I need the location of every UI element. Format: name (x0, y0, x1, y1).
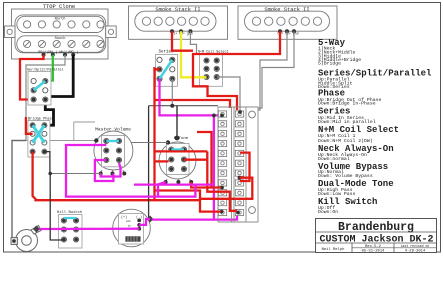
neck pickup TTOP Clone box (12, 9, 109, 59)
north coil (17, 16, 105, 32)
wire red vertical extension (153, 191, 155, 201)
wire red 5way loop (200, 178, 252, 199)
wire gray bridge c2 (248, 31, 287, 110)
svg-text:WH(+)BK(-): WH(+)BK(-) (59, 50, 78, 54)
wire magenta mid horizontal (134, 183, 214, 185)
wire ground bus down to jack (12, 141, 26, 242)
title block (316, 219, 437, 254)
switch Ser/Split/Parallel (27, 68, 64, 106)
wire black to kill bottom (50, 174, 64, 241)
5way lug column B (235, 111, 243, 216)
bridge pickup body (245, 11, 330, 31)
wire magenta volume U (66, 145, 195, 197)
wire black bus down to tone cap diamond (149, 106, 150, 219)
wire gray cavity corner (74, 122, 95, 141)
lever X (33, 125, 45, 142)
wire magenta tone lug loop (139, 219, 150, 225)
wire gray bridge gnd (250, 31, 294, 108)
wire black bridge phase to kill switch (44, 152, 50, 174)
wire magenta diamond to 5way vertical (152, 218, 214, 220)
wire magenta 5way vertical (214, 115, 237, 219)
pot M.Tone (159, 137, 196, 184)
jumper (171, 148, 184, 150)
wire gray series bottom to bus junction (171, 79, 173, 106)
svg-text:4-29-2014: 4-29-2014 (405, 249, 426, 253)
wire magenta under volume inner (101, 163, 121, 177)
svg-text:Rev.5.2: Rev.5.2 (365, 245, 382, 249)
svg-text:North: North (55, 16, 66, 21)
dual-mode tone pot (113, 209, 151, 247)
wire bridge-phase lug to bus (43, 134, 45, 141)
wire red bridge-phase to long bottom run (33, 152, 200, 201)
wire magenta series to 5way (160, 79, 223, 116)
neck pickup terminals (42, 53, 76, 57)
svg-text:in: in (128, 223, 132, 227)
wire red cross link (155, 150, 208, 152)
5way active lug dots (212, 110, 242, 214)
wire red bus to 5way top (155, 100, 231, 108)
legend text block (318, 38, 432, 215)
mounting tab left (5, 26, 16, 38)
bridge pickup box (238, 6, 337, 39)
output jack (11, 226, 41, 252)
wire magenta jack to kill to tone (39, 228, 139, 231)
wire black jog to bridge phase (44, 99, 53, 125)
switch N+M Coil Select (198, 49, 229, 86)
wire red to tone lug (155, 160, 169, 162)
svg-text:5)Bridge: 5)Bridge (318, 61, 341, 67)
wire red 5way right stub loop (240, 153, 250, 181)
svg-text:Down:Mid in parallel: Down:Mid in parallel (318, 119, 376, 125)
jumper (64, 217, 76, 219)
pot case dot (94, 138, 98, 142)
wire red around tone pot vertical (155, 67, 222, 211)
wire green (neck) (45, 55, 53, 81)
svg-text:RD(+)GN(-): RD(+)GN(-) (38, 50, 57, 54)
wire red (neck) (20, 55, 44, 100)
pot bottom lugs (166, 179, 192, 183)
wire ground bus to volume pot case (26, 140, 96, 142)
svg-text:M.Tone: M.Tone (174, 137, 189, 141)
wire red parallel vertical (197, 132, 221, 188)
svg-text:out: out (126, 220, 131, 223)
south coil (17, 36, 105, 53)
jumper (106, 140, 119, 142)
wire white (neck) to ground bus and jack (26, 55, 65, 141)
5-way megaswitch (218, 107, 258, 222)
wire yellow middle pickup to N+M (181, 31, 207, 77)
lugs (137, 219, 141, 231)
middle pickup body (135, 11, 216, 31)
wire gray middle pickup c2 (190, 31, 196, 55)
wire red pot lug to 5way (191, 182, 211, 188)
middle pickup box (129, 6, 228, 39)
capacitor striped (126, 237, 141, 242)
svg-text:Neil Relph: Neil Relph (322, 247, 345, 252)
junction (170, 104, 174, 108)
switch Bridge Phase (28, 116, 54, 157)
wire magenta pot lug down (158, 182, 166, 197)
svg-text:Down:On: Down:On (318, 209, 338, 215)
svg-text:Last revised on: Last revised on (401, 244, 430, 248)
wire gray N+M to 5way (217, 77, 240, 112)
wire red to series lug (155, 67, 160, 69)
svg-text:TTOP Clone: TTOP Clone (43, 4, 75, 10)
wire red middle pickup long vertical (172, 31, 193, 50)
humbucker body (15, 15, 106, 53)
5way lug column A (218, 111, 226, 216)
wire red tone right lug (184, 159, 207, 161)
wire red bridge pickup to 5way (193, 31, 280, 110)
switch Kill Switch (57, 210, 82, 248)
diamond connector jack (33, 226, 40, 233)
wire black to tone pot top (176, 106, 178, 138)
switch Series (156, 49, 178, 86)
diamond connector tone (147, 216, 154, 223)
lever (160, 60, 173, 79)
wire black (neck) staircase (45, 55, 73, 97)
wire gray horizontal bus to 5way (149, 105, 218, 107)
case dot (166, 140, 170, 144)
wire gray volume to kill (50, 173, 100, 175)
pot Master Volume (94, 126, 133, 175)
wire magenta under volume outer (95, 160, 114, 181)
wire red into bridge phase left (26, 117, 33, 134)
wire gray pot case link (131, 142, 168, 144)
svg-text:05-31-2014: 05-31-2014 (362, 250, 386, 254)
wire red vertical to 5way lug (207, 151, 237, 210)
lever (34, 81, 46, 90)
svg-text:Down:Low Pass: Down:Low Pass (318, 191, 356, 197)
mounting tab right (106, 26, 117, 38)
svg-text:South: South (55, 36, 66, 41)
pot bottom lugs (101, 170, 125, 175)
